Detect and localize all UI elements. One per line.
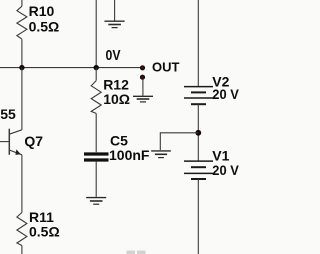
resistor R11 [17, 213, 27, 254]
node dot (ground tap below OUT) [140, 75, 144, 79]
ground (top, 0V reference) [105, 21, 125, 27]
svg-text:10Ω: 10Ω [103, 91, 130, 107]
transistor Q7 [0, 129, 22, 155]
net label 0V [106, 48, 121, 64]
value label 20 V (V1) [212, 162, 239, 178]
label R12 [103, 77, 129, 93]
svg-text:100nF: 100nF [109, 147, 150, 163]
svg-text:0.5Ω: 0.5Ω [29, 19, 60, 35]
svg-text:20 V: 20 V [212, 86, 239, 102]
label Q7 [24, 133, 43, 149]
net label OUT [152, 60, 180, 75]
resistor R10 [17, 0, 27, 68]
svg-text:0.5Ω: 0.5Ω [29, 224, 60, 240]
svg-text:Q7: Q7 [24, 133, 43, 149]
svg-text:55: 55 [0, 106, 16, 122]
value label 0.5Ω (R10) [29, 19, 60, 35]
battery V1 [184, 161, 213, 179]
node OUT dot [140, 66, 144, 70]
label V2 [212, 74, 229, 90]
ground (below OUT) [133, 96, 153, 102]
wire stub to top ground [114, 0, 116, 21]
label V1 [212, 148, 229, 164]
wire right rail top [197, 0, 199, 87]
node junction dot C (between V2 and V1) [195, 130, 201, 136]
svg-text:0V: 0V [106, 48, 121, 64]
watermark (faint, bottom edge) [127, 251, 146, 254]
value label 10Ω (R12) [103, 91, 130, 107]
node junction dot A (R10 / Q7 collector / OUT wire) [19, 65, 24, 70]
wire main horizontal OUT net [0, 67, 143, 69]
wire right rail bottom [197, 179, 199, 254]
capacitor C5 [84, 154, 109, 160]
label C5 [110, 133, 128, 149]
value label 0.5Ω (R11) [29, 224, 60, 240]
wire collector riser [21, 68, 23, 130]
svg-text:20 V: 20 V [212, 162, 239, 178]
resistor R12 [91, 68, 101, 153]
wire emitter to R11 [21, 155, 23, 213]
label R11 [29, 209, 54, 225]
svg-text:R10: R10 [29, 3, 55, 19]
node junction dot B (R12 top) [94, 65, 99, 70]
wire vertical feed from top to node B [95, 0, 97, 68]
partial part number 55 (3055 cut at edge) [0, 106, 16, 122]
ground (mid, between batteries) [151, 151, 171, 158]
label R10 [29, 3, 55, 19]
wire mid-ground branch [160, 133, 198, 150]
ground (below C5) [86, 198, 106, 205]
value label 100nF (C5) [109, 147, 150, 163]
wire OUT tap to ground [142, 79, 144, 96]
wire C5 to ground [95, 162, 97, 197]
battery V2 [184, 87, 213, 105]
svg-text:OUT: OUT [152, 60, 180, 75]
value label 20 V (V2) [212, 86, 239, 102]
wire right rail middle [197, 104, 199, 161]
